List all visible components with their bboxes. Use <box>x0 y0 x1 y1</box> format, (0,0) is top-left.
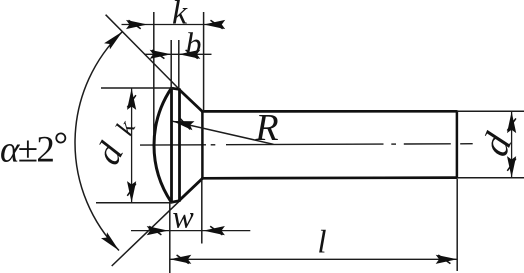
head top edge <box>171 88 181 90</box>
head cone top edge <box>179 89 203 111</box>
head crown arc <box>154 88 171 203</box>
l arrow right (pointing right) <box>436 255 458 264</box>
svg-text:α±2°: α±2° <box>0 125 67 171</box>
k dimension right extension line <box>203 12 205 111</box>
cone extension line bottom (alpha side) <box>112 200 181 266</box>
w right extension line (junction extended down) <box>201 180 203 244</box>
k arrow left <box>126 20 148 29</box>
head bottom edge <box>171 200 181 202</box>
svg-text:b: b <box>186 26 202 62</box>
dk dimension bottom extension line <box>96 202 173 204</box>
alpha arc arrow top <box>104 32 122 50</box>
svg-text:R: R <box>254 107 278 149</box>
dk dimension top extension line <box>101 87 173 89</box>
d arrow bottom (pointing down) <box>507 156 516 178</box>
l right extension line (shank end extended down) <box>456 179 458 271</box>
k dimension left extension line <box>153 12 155 135</box>
svg-text:w: w <box>172 199 194 235</box>
k arrow right <box>204 20 226 29</box>
centerline (rivet axis) <box>140 144 473 145</box>
svg-text:l: l <box>317 225 326 261</box>
R leader line <box>172 121 273 144</box>
k dimension line <box>122 24 219 26</box>
R leader arrowhead (pointing left at head face) <box>173 121 195 130</box>
b dimension left extension line (line A extended up) <box>170 40 172 88</box>
shank top edge <box>201 110 457 113</box>
d top extension line (shank top extended right) <box>457 110 524 112</box>
l arrow left (pointing left) <box>170 255 192 264</box>
w arrow right <box>203 226 225 235</box>
d arrow top (pointing up) <box>507 112 516 134</box>
head/shank junction line <box>201 111 204 179</box>
b arrow right <box>179 50 201 59</box>
w dimension line <box>131 230 250 232</box>
alpha dimension arc <box>75 32 122 251</box>
dk arrow bottom (pointing down) <box>127 181 136 203</box>
shank bottom edge <box>201 176 457 179</box>
w arrow left <box>147 226 169 235</box>
alpha arc arrow bottom <box>101 232 119 250</box>
b dimension right extension line (line B extended up) <box>178 40 180 89</box>
shank end face line <box>456 110 459 179</box>
head face line B <box>178 89 181 201</box>
l dimension line <box>170 258 457 260</box>
head cone bottom edge <box>179 178 203 201</box>
dk arrow top (pointing up) <box>127 88 136 110</box>
d dimension line <box>511 112 513 178</box>
b dimension line <box>144 53 211 55</box>
cone extension line top (alpha side) <box>106 15 181 91</box>
dk dimension line <box>131 88 133 202</box>
w left extension line (line A extended down) <box>169 204 171 273</box>
b arrow left <box>150 50 172 59</box>
head face line A <box>170 87 173 204</box>
d bottom extension line (shank bottom extended right) <box>457 177 524 179</box>
